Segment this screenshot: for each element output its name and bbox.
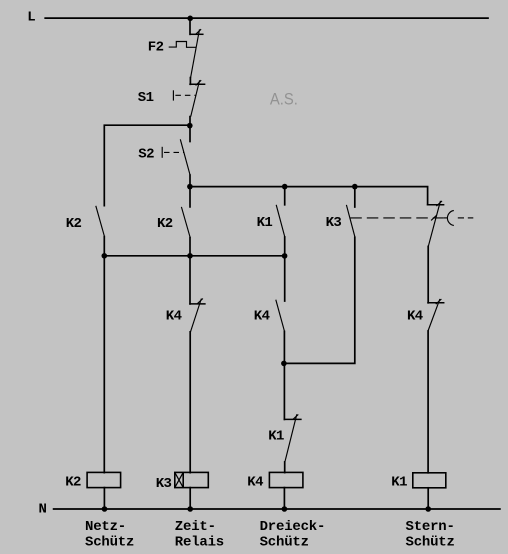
node K3 branch junction: [352, 184, 358, 190]
wire L bus: [45, 17, 488, 19]
contact K4 mid blade: [276, 300, 285, 332]
svg-text:Stern-: Stern-: [406, 519, 455, 535]
switch S2 blade: [180, 139, 190, 175]
svg-text:K1: K1: [391, 475, 407, 491]
wire dash after arc 2: [468, 217, 474, 219]
coil K2: [87, 472, 121, 487]
svg-text:Netz-: Netz-: [85, 519, 126, 535]
node A junction: [187, 123, 193, 129]
node K1 branch junction: [282, 184, 288, 190]
wire bus y363 and K3 branch lower stem: [284, 237, 355, 363]
contact K1 bottom blade serif: [293, 414, 299, 419]
svg-text:Relais: Relais: [175, 535, 224, 551]
node N2 junction: [187, 506, 193, 512]
contact K4 left stop tick: [190, 303, 205, 305]
svg-text:K4: K4: [247, 475, 263, 491]
wire stem K3 branch from bus186: [354, 187, 356, 207]
node N3 junction: [282, 506, 288, 512]
svg-text:K2: K2: [65, 475, 81, 491]
svg-text:K4: K4: [166, 309, 182, 325]
wire stem S2 to node B: [189, 175, 191, 207]
coil K3 timer: [175, 472, 209, 487]
wire stem F2 to S1: [189, 78, 191, 85]
wire stem S1 to node A: [189, 117, 191, 142]
switch S1 actuator dashes: [175, 94, 196, 96]
fuse F2 blade serif: [196, 29, 202, 34]
wire stem coil K2 to N: [103, 488, 105, 509]
contact K1 bottom stop tick: [284, 418, 301, 420]
node N1 junction: [102, 506, 108, 512]
switch S2 actuator tick: [161, 147, 163, 158]
wire stem K1 branch from bus186: [284, 187, 286, 205]
svg-text:S1: S1: [138, 90, 154, 106]
contact delay blade: [428, 201, 440, 247]
coil K1: [413, 473, 446, 488]
node bus256 right junction: [282, 253, 288, 259]
wire bus y125 with left branch corner and stem to K2 contact: [104, 125, 190, 205]
wire stem coil K1 to N: [427, 488, 429, 509]
contact delay blade serif top: [436, 201, 442, 206]
wire stem K4 left to coil K3: [189, 332, 191, 473]
svg-text:L: L: [27, 9, 35, 25]
wire N bus: [54, 508, 500, 510]
switch S1 actuator tick: [172, 90, 174, 100]
wire trunk stem L to F2: [189, 18, 191, 34]
node bus256 left junction: [102, 253, 108, 259]
wire dash arc tick: [444, 217, 448, 219]
wire bus y186 from trunk to right branch corner: [190, 187, 428, 205]
contact K2 mid blade: [181, 207, 190, 238]
wire stem coil K4 to N: [283, 488, 285, 509]
node B junction: [187, 184, 193, 190]
fuse F2 thermal bump: [169, 42, 197, 48]
contact F2 stop tick: [190, 33, 203, 35]
wire stem K1 bottom to coil K4: [284, 462, 286, 473]
wire stem coil K3 to N: [189, 488, 191, 509]
wire stem K4 mid to K1 bottom: [283, 331, 285, 419]
svg-text:K1: K1: [257, 215, 273, 231]
wire bus y256: [104, 255, 284, 257]
contact delay stop tick: [428, 204, 444, 206]
wire stem right branch delay to K4 right: [427, 246, 429, 302]
coil K3 X mark: [175, 472, 183, 487]
svg-text:K4: K4: [254, 309, 270, 325]
fuse F2 blade: [191, 29, 200, 77]
switch S1 blade: [191, 80, 200, 116]
wire K3 actuation dashed link: [350, 217, 443, 219]
node L junction: [187, 15, 193, 21]
switch S1 blade serif: [196, 80, 202, 85]
svg-text:K2: K2: [157, 216, 173, 232]
svg-text:Dreieck-: Dreieck-: [260, 519, 326, 535]
wire stem K1 to K4 mid: [284, 237, 286, 301]
svg-text:K4: K4: [407, 309, 423, 325]
svg-text:Zeit-: Zeit-: [175, 519, 216, 535]
svg-text:Schütz: Schütz: [406, 535, 455, 551]
contact K1 bottom blade: [285, 414, 297, 462]
contact delay blade serif at dash: [431, 215, 437, 220]
svg-text:A.S.: A.S.: [270, 90, 298, 109]
contact K3 blade: [346, 205, 355, 237]
node bus363 junction: [281, 361, 287, 367]
contact K1 top blade: [276, 205, 285, 237]
contact K4 right stop tick: [428, 302, 444, 304]
svg-text:K3: K3: [326, 215, 342, 231]
contact S1 stop tick: [190, 83, 205, 85]
svg-text:K1: K1: [268, 429, 284, 445]
svg-text:N: N: [39, 501, 47, 517]
switch S2 actuator dashes: [164, 151, 184, 153]
wire stem K2 mid to K4 left: [189, 238, 191, 304]
svg-text:Schütz: Schütz: [260, 535, 309, 551]
contact K4 right blade serif: [436, 299, 442, 304]
contact K4 right blade: [428, 299, 440, 331]
svg-text:K2: K2: [66, 216, 82, 232]
coil K4: [269, 472, 303, 487]
svg-text:K3: K3: [156, 476, 172, 492]
node N4 junction: [425, 506, 431, 512]
wire stem K4 right to coil K1: [427, 331, 429, 473]
wire stem K2 left lower to coil K2: [103, 237, 105, 473]
coil K3 divider: [182, 472, 184, 487]
node bus256 mid junction: [187, 253, 193, 259]
wire dash after arc 1: [458, 217, 464, 219]
delay symbol arc: [447, 211, 453, 226]
contact K4 left blade: [191, 299, 202, 332]
svg-text:Schütz: Schütz: [85, 535, 134, 551]
contact K2 left blade: [96, 206, 105, 237]
svg-text:F2: F2: [148, 39, 164, 55]
contact K4 left blade serif: [197, 299, 203, 304]
svg-text:S2: S2: [138, 147, 154, 163]
